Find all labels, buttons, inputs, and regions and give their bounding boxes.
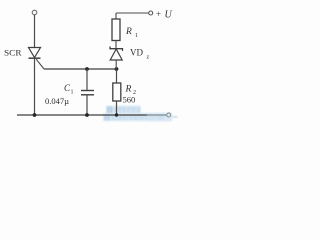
- resistor R2: [113, 83, 121, 101]
- svg-text:1: 1: [71, 90, 74, 96]
- wire: R2 top lead: [116, 69, 118, 83]
- node: zener/R2 junction: [115, 67, 119, 71]
- svg-text:1: 1: [135, 33, 138, 39]
- wire: SCR gate diagonal: [36, 59, 44, 69]
- watermark lower block: [103, 113, 172, 121]
- svg-text:0.047µ: 0.047µ: [45, 96, 69, 106]
- terminal (SCR anode, top-left): [32, 10, 37, 15]
- node: capacitor on rail: [85, 113, 89, 117]
- svg-text:U: U: [165, 10, 173, 21]
- svg-text:R: R: [125, 27, 132, 37]
- watermark upper block: [106, 106, 141, 115]
- wire: capacitor top lead: [86, 69, 88, 91]
- wire: R1 top lead: [115, 13, 117, 19]
- SCR V1 (thyristor): [29, 48, 41, 59]
- capacitor C1: [81, 91, 94, 95]
- node: SCR cathode on rail: [33, 113, 37, 117]
- terminal (bottom-right): [167, 113, 171, 117]
- resistor R1: [112, 19, 120, 41]
- svg-text:+: +: [156, 9, 161, 19]
- wire: bottom rail: [17, 114, 167, 116]
- svg-text:z: z: [147, 55, 150, 61]
- paper background: [0, 0, 180, 130]
- zener diode VDz: [110, 47, 123, 61]
- svg-text:R: R: [125, 85, 132, 95]
- svg-text:VD: VD: [130, 48, 143, 58]
- wire: capacitor bottom lead: [86, 95, 88, 115]
- svg-text:SCR: SCR: [4, 48, 22, 58]
- terminal +U: [149, 11, 153, 15]
- node: capacitor tap junction: [85, 67, 89, 71]
- wire: anode terminal down to SCR: [34, 15, 36, 48]
- wire: SCR cathode down to bottom rail: [34, 58, 36, 115]
- wire: R1 to zener: [115, 41, 117, 49]
- wire: R2 bottom lead: [116, 101, 118, 115]
- watermark veil over rail (right): [147, 113, 178, 121]
- wire: gate node horizontal: [44, 68, 117, 70]
- node: R2 on rail: [115, 113, 118, 116]
- wire: zener to junction: [115, 60, 117, 69]
- wire: +U feed horizontal: [116, 12, 149, 14]
- svg-text:560: 560: [123, 95, 136, 105]
